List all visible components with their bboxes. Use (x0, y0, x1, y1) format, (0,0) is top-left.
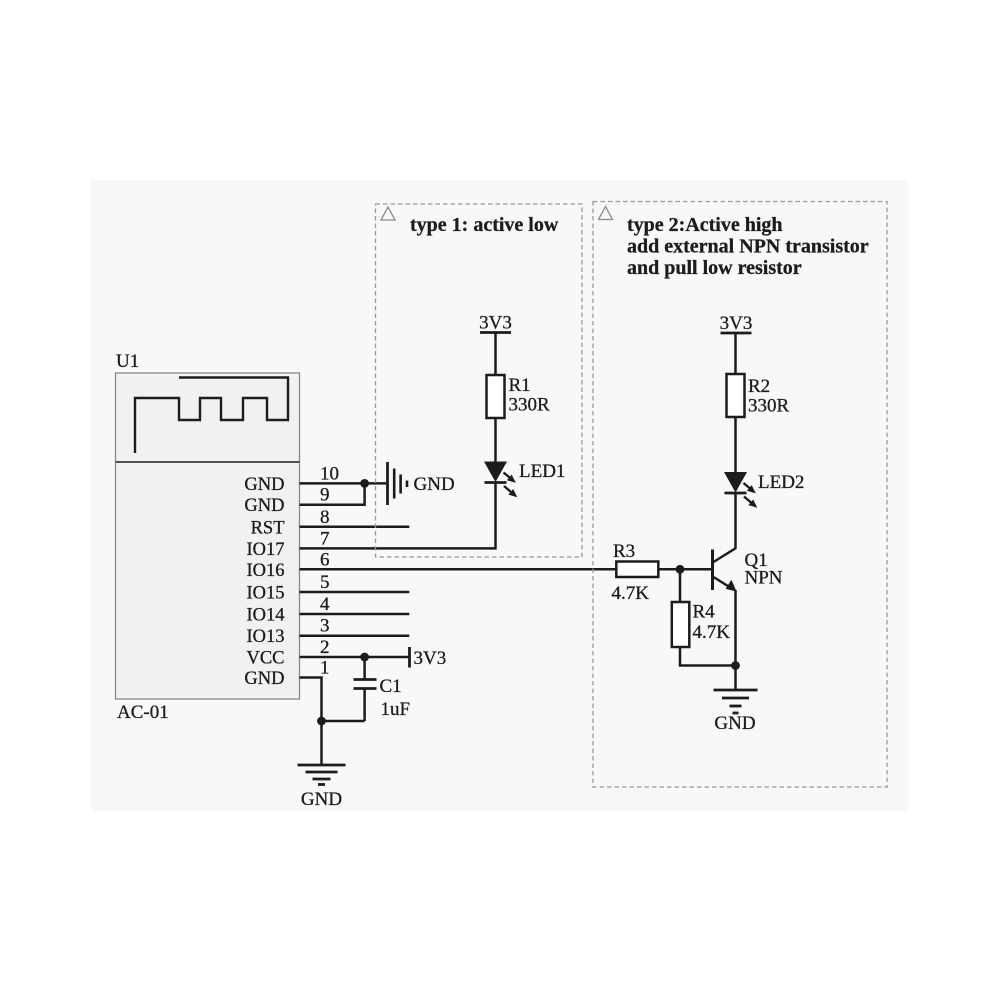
ground symbol GND (pins 10/9, rotated) (388, 462, 408, 505)
svg-text:10: 10 (320, 463, 339, 484)
wire down to GND (320, 721, 323, 765)
svg-text:type 2:Active high: type 2:Active high (627, 214, 783, 236)
svg-text:RST: RST (251, 518, 285, 538)
LED LED2 (724, 472, 757, 508)
svg-text:GND: GND (301, 789, 342, 810)
svg-text:3: 3 (320, 616, 330, 637)
svg-text:add external NPN transistor: add external NPN transistor (627, 236, 869, 258)
svg-text:GND: GND (244, 496, 284, 516)
svg-text:U1: U1 (116, 351, 139, 372)
svg-text:and pull low resistor: and pull low resistor (627, 257, 802, 279)
IC U1 body (116, 373, 300, 699)
svg-text:3V3: 3V3 (720, 313, 753, 334)
wire pin3 IO13 stub (300, 634, 410, 637)
ground symbol GND (bottom left) (298, 765, 346, 785)
svg-text:NPN: NPN (745, 568, 783, 589)
wire R2 to LED2 (734, 417, 737, 472)
svg-text:4: 4 (320, 594, 330, 615)
power symbol 3V3 (type 2) (721, 333, 752, 374)
junction dot emitter/R4 (731, 661, 740, 670)
svg-text:6: 6 (320, 549, 330, 570)
resistor R1 (487, 375, 505, 418)
wire pin5 IO15 stub (300, 591, 410, 594)
wire pin4 IO14 stub (300, 613, 410, 616)
svg-text:IO15: IO15 (246, 584, 284, 604)
svg-text:LED1: LED1 (519, 461, 565, 482)
type 1 corner triangle marker (381, 207, 395, 220)
svg-text:GND: GND (414, 474, 455, 495)
svg-text:9: 9 (320, 485, 330, 506)
svg-text:IO13: IO13 (246, 627, 284, 647)
svg-text:LED2: LED2 (758, 472, 804, 493)
svg-text:GND: GND (244, 475, 284, 495)
svg-text:AC-01: AC-01 (117, 702, 169, 723)
wire R3 to Q1 base (658, 568, 712, 571)
wire LED2 to Q1 collector (734, 493, 737, 549)
svg-text:7: 7 (320, 528, 330, 549)
svg-text:4.7K: 4.7K (612, 583, 650, 604)
junction dot base/R4 (676, 565, 685, 574)
svg-text:3V3: 3V3 (414, 648, 447, 669)
wire C1 bottom to pin1 net (322, 720, 365, 723)
svg-text:C1: C1 (380, 676, 402, 697)
type 2 corner triangle marker (599, 207, 613, 220)
svg-text:330R: 330R (509, 395, 551, 416)
wire base node down to R4 (679, 569, 682, 602)
svg-text:1: 1 (320, 658, 330, 679)
svg-text:330R: 330R (748, 396, 790, 417)
LED LED1 (484, 462, 517, 498)
svg-text:R3: R3 (613, 541, 635, 562)
svg-text:5: 5 (320, 572, 330, 593)
junction dot pin1/C1 (317, 717, 326, 726)
wire pin9 up to pin10 net (300, 483, 365, 504)
svg-text:2: 2 (320, 637, 330, 658)
svg-text:IO17: IO17 (246, 540, 284, 560)
wire R4 bottom to emitter net (680, 647, 736, 666)
svg-text:4.7K: 4.7K (693, 622, 731, 643)
capacitor C1 (354, 657, 377, 721)
wire Q1 emitter down (734, 590, 737, 690)
power symbol 3V3 (type 1) (480, 333, 511, 376)
resistor R2 (727, 374, 745, 417)
junction dot pins 9/10 (360, 479, 369, 488)
svg-text:GND: GND (244, 669, 284, 689)
type 1 dashed region box (376, 204, 583, 557)
wire pin8 RST stub (300, 526, 410, 529)
svg-text:IO14: IO14 (246, 606, 284, 626)
resistor R3 (616, 562, 658, 578)
svg-text:GND: GND (714, 713, 755, 734)
svg-text:8: 8 (320, 507, 330, 528)
svg-text:IO16: IO16 (246, 561, 284, 581)
svg-text:R2: R2 (748, 376, 770, 397)
svg-text:R1: R1 (509, 375, 531, 396)
power symbol 3V3 (pin2, rotated bar) (408, 647, 411, 668)
svg-text:type 1: active low: type 1: active low (410, 214, 559, 236)
wire pin7 IO17 to LED1 cathode (300, 483, 496, 549)
svg-text:R4: R4 (693, 602, 716, 623)
transistor Q1 NPN (713, 548, 737, 592)
svg-text:VCC: VCC (246, 649, 284, 669)
wire pin2 VCC to 3V3 (300, 656, 410, 659)
type 2 dashed region box (593, 202, 887, 788)
ground symbol GND (Q1 emitter) (714, 690, 758, 713)
svg-text:3V3: 3V3 (479, 313, 512, 334)
junction dot VCC/C1 (360, 653, 369, 662)
wire pin10 to ground (300, 482, 387, 485)
wire pin1 GND down (300, 678, 322, 722)
svg-text:1uF: 1uF (381, 699, 411, 720)
wire pin6 IO16 to R3 (300, 568, 617, 571)
U1 antenna trace (135, 378, 288, 454)
resistor R4 (672, 602, 690, 647)
wire R1 to LED1 (494, 418, 497, 462)
